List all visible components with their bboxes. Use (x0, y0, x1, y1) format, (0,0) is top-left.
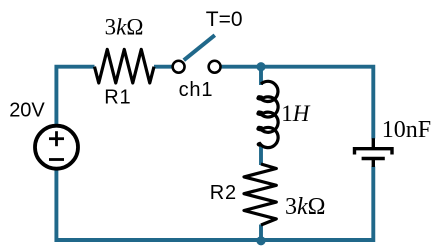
svg-text:20V: 20V (9, 99, 45, 121)
svg-text:10nF: 10nF (382, 117, 431, 143)
svg-text:3kΩ: 3kΩ (285, 194, 326, 220)
svg-text:ch1: ch1 (179, 79, 214, 101)
svg-text:R2: R2 (210, 182, 237, 204)
svg-text:3kΩ: 3kΩ (105, 15, 144, 40)
svg-text:1H: 1H (281, 101, 311, 126)
svg-text:R1: R1 (104, 87, 131, 109)
svg-text:T=0: T=0 (206, 8, 243, 31)
